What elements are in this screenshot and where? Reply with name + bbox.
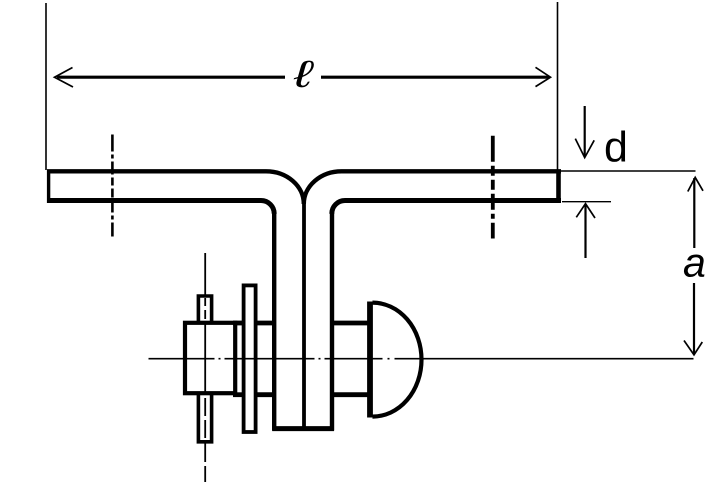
stem bottom edge xyxy=(272,426,334,431)
T-bar top outline (flat anchor bar) xyxy=(47,170,50,204)
dimension line l left segment xyxy=(57,76,285,79)
bolt shaft top line stem-head xyxy=(333,321,370,326)
bolt round head flat face xyxy=(367,302,373,418)
bolt shaft bottom line washer-stem xyxy=(256,392,273,397)
T-bar bottom edge and bend into stem xyxy=(47,201,561,214)
stem right line xyxy=(330,213,334,431)
bolt shaft top line washer-stem xyxy=(256,321,273,326)
nut vertical centerline xyxy=(204,253,206,482)
stem left line xyxy=(272,213,276,431)
stem center seam xyxy=(302,202,306,427)
horizontal centerline of bolt xyxy=(149,358,694,360)
extension line right (dimension l) xyxy=(557,2,559,171)
svg-text:ℓ: ℓ xyxy=(293,54,315,96)
dash-dot centerline through bar, left xyxy=(111,135,114,237)
arrow up (dimension d lower) xyxy=(584,205,586,259)
bolt shaft bottom line stem-head xyxy=(333,392,370,397)
nut top tab xyxy=(198,296,211,322)
arrowhead left of dimension l xyxy=(55,68,74,88)
dimension line a lower segment with down arrow xyxy=(693,283,695,354)
svg-text:d: d xyxy=(604,124,628,172)
arrow down (dimension d upper) xyxy=(584,106,586,157)
dimension line l right segment xyxy=(321,76,549,79)
extension line left (dimension l) xyxy=(45,3,47,170)
arrowhead right of dimension l xyxy=(536,67,551,86)
bolt round head dome xyxy=(373,303,422,417)
extension line bar bottom (short, for d) xyxy=(562,201,611,203)
dimension line a upper segment with up arrow xyxy=(693,178,695,248)
extension line bar top to right edge xyxy=(557,170,696,172)
dash-dot centerline through bar, right xyxy=(491,136,495,239)
nut square body xyxy=(185,323,235,393)
washer xyxy=(244,285,256,432)
bolt shaft top line nut-washer xyxy=(233,321,244,326)
bolt shaft bottom line nut-washer xyxy=(233,392,244,397)
svg-text:a: a xyxy=(683,240,706,286)
nut bottom tab xyxy=(198,394,211,442)
